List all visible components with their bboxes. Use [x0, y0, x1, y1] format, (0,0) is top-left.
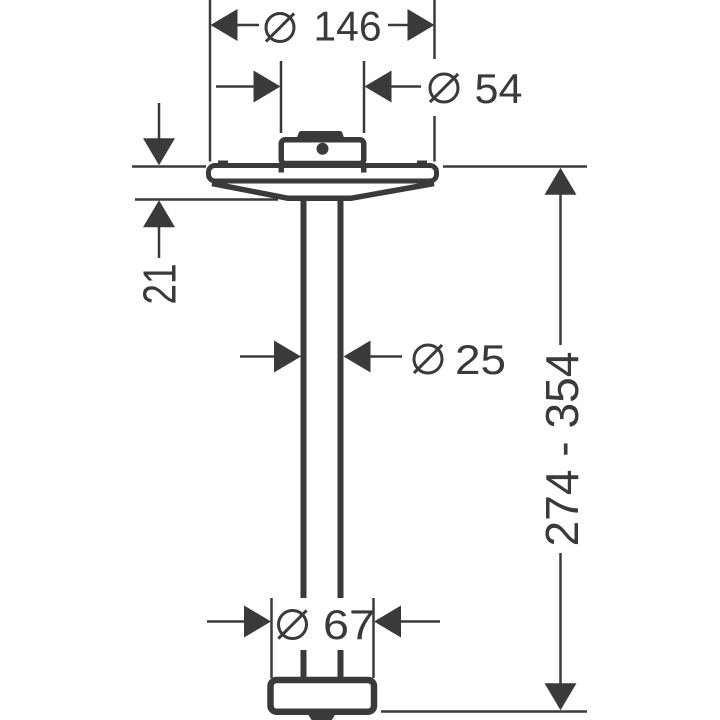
- bottom cylinder Ø67: [271, 680, 375, 712]
- dimension Ø25 line right: [370, 355, 402, 358]
- dimension Ø54 line right: [391, 85, 421, 88]
- extension line overall bottom right: [381, 710, 587, 713]
- dimension 274-354 arrow down: [545, 683, 577, 710]
- dimension Ø67 line right: [401, 620, 440, 623]
- connector box Ø54: [281, 140, 364, 164]
- svg-text:25: 25: [455, 336, 506, 383]
- label Ø146 diameter symbol: [266, 13, 294, 41]
- dimension Ø67 arrow left: [244, 606, 271, 638]
- dimension Ø54 arrow left: [254, 71, 281, 103]
- dimension Ø54 line left: [216, 85, 255, 88]
- dimension Ø67 extension line right: [372, 598, 375, 678]
- label Ø67 diameter symbol: [278, 610, 306, 638]
- svg-text:146: 146: [314, 3, 382, 50]
- label Ø54 diameter symbol: [430, 74, 458, 102]
- dimension Ø146 line stubs: [236, 24, 408, 27]
- dimension Ø146 extension line right (gap at Ø54 label): [433, 0, 436, 162]
- dimension Ø146 arrow left: [211, 9, 238, 41]
- dimension 274-354 upper vertical line: [559, 194, 562, 345]
- flange plate band: [209, 166, 437, 182]
- dimension Ø67 extension line left: [270, 598, 273, 678]
- connector top lip: [296, 131, 346, 142]
- dimension Ø25 arrow left: [274, 341, 301, 373]
- svg-text:54: 54: [475, 65, 523, 112]
- extension line flange top left: [132, 165, 206, 168]
- dimension Ø54 extension line left: [280, 61, 283, 133]
- flange funnel: [212, 184, 434, 199]
- dimension Ø67 arrow right: [374, 606, 401, 638]
- label Ø25 diameter symbol: [414, 345, 442, 373]
- dimension 21 lower vertical line: [158, 227, 161, 258]
- dimension 274-354 lower vertical line: [559, 553, 562, 684]
- connector screw dot: [317, 143, 329, 155]
- flange rim nub right: [417, 161, 427, 165]
- dimension Ø146 arrow right: [408, 9, 435, 41]
- dimension 21 upper vertical line: [158, 103, 161, 140]
- extension line overall top right: [443, 165, 587, 168]
- bottom nozzle bump: [305, 709, 339, 720]
- flange rim nub left: [218, 161, 228, 165]
- svg-text:21: 21: [134, 264, 186, 305]
- pipe left wall: [301, 196, 307, 680]
- svg-text:274 - 354: 274 - 354: [536, 352, 588, 547]
- svg-text:67: 67: [323, 601, 375, 648]
- dimension 274-354 arrow up: [545, 168, 577, 195]
- dimension Ø54 extension line right: [363, 61, 366, 133]
- extension line flange bottom left: [135, 198, 278, 201]
- connector box wall stub left: [279, 166, 285, 173]
- dimension 21 arrow down: [143, 138, 175, 165]
- dimension Ø67 line left: [207, 620, 245, 623]
- connector box wall stub right: [361, 166, 367, 173]
- pipe right wall: [338, 196, 344, 680]
- dimension 21 arrow up: [143, 200, 175, 227]
- dimension Ø25 arrow right: [344, 341, 371, 373]
- dimension Ø54 arrow right: [365, 71, 392, 103]
- dimension Ø25 line left: [240, 355, 276, 358]
- dimension Ø146 extension line left: [209, 0, 212, 162]
